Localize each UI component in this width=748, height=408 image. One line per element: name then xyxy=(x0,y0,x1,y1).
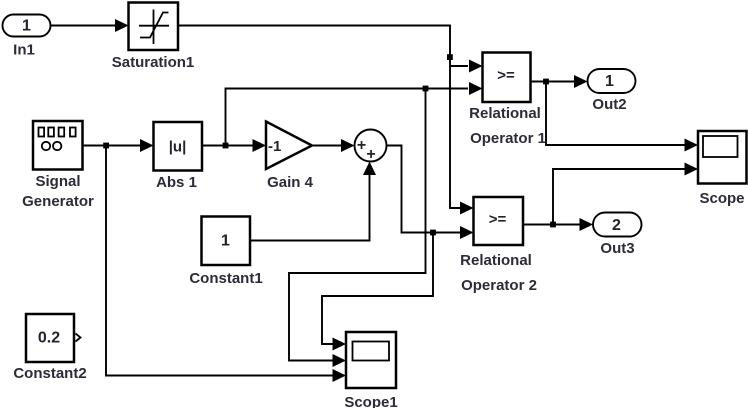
svg-text:Generator: Generator xyxy=(22,193,94,210)
wire branch RO1 output to Scope input 1 xyxy=(546,82,698,152)
wire branch RO2 output to Scope input 2 xyxy=(553,163,698,225)
wire Sum output to Relational Operator 2 input 2 xyxy=(387,146,474,240)
scope block Scope xyxy=(698,131,747,207)
junction dot Signal Generator branch xyxy=(103,143,109,149)
svg-text:Signal: Signal xyxy=(35,173,80,190)
junction dot Abs output branch xyxy=(223,143,229,149)
wire branch down to Scope1 input 2 xyxy=(289,89,426,368)
abs block Abs 1 xyxy=(154,122,203,191)
junction dot on RO2 output xyxy=(550,222,556,228)
wire Constant1 to Sum bottom input xyxy=(250,162,376,241)
wire Saturation1 to x450 corner, down xyxy=(178,26,474,215)
svg-text:2: 2 xyxy=(612,217,621,234)
wire Relational Operator 2 to Out3 xyxy=(523,218,593,231)
svg-text:>=: >= xyxy=(497,67,515,84)
svg-text:Abs 1: Abs 1 xyxy=(156,174,197,191)
svg-text:+: + xyxy=(366,146,375,163)
scope block Scope1 xyxy=(344,332,397,408)
svg-text:Constant2: Constant2 xyxy=(13,365,86,382)
svg-text:>=: >= xyxy=(489,211,507,228)
outport Out2 xyxy=(588,69,636,113)
wire Gain 4 to Sum xyxy=(312,139,355,152)
junction dot on RO1 output xyxy=(543,79,549,85)
svg-text:Scope: Scope xyxy=(699,190,744,207)
svg-text:Relational: Relational xyxy=(460,252,532,269)
svg-text:Constant1: Constant1 xyxy=(189,270,262,287)
svg-text:Scope1: Scope1 xyxy=(344,394,397,408)
svg-text:1: 1 xyxy=(221,233,230,250)
svg-text:Gain 4: Gain 4 xyxy=(267,174,314,191)
wire Abs 1 to Gain 4 xyxy=(202,139,266,152)
svg-text:|u|: |u| xyxy=(169,139,187,156)
svg-text:Operator 2: Operator 2 xyxy=(461,277,537,294)
junction dot on saturation branch xyxy=(447,54,453,60)
saturation block Saturation1 xyxy=(112,3,195,72)
inport In1 xyxy=(3,15,51,59)
wire branch to Relational Operator 1 input 1 xyxy=(450,60,483,73)
svg-text:1: 1 xyxy=(22,18,31,35)
sum block xyxy=(355,130,387,164)
outport Out3 xyxy=(593,213,642,258)
svg-text:1: 1 xyxy=(605,73,614,90)
relational operator block Relational Operator 2 xyxy=(460,197,537,294)
wire Relational Operator 1 to Out2 xyxy=(531,75,588,88)
svg-text:Relational: Relational xyxy=(469,105,541,122)
svg-text:-1: -1 xyxy=(268,138,281,155)
constant block Constant1 xyxy=(189,217,262,288)
wire In1 to Saturation1 xyxy=(51,19,129,32)
junction dot on y88 line xyxy=(423,86,429,92)
svg-text:Saturation1: Saturation1 xyxy=(112,54,195,71)
signal generator block xyxy=(22,121,94,210)
svg-text:+: + xyxy=(357,137,366,154)
wire branch sum output to Scope1 input 1 xyxy=(322,233,433,351)
wire branch Abs up and right to Relational Operator 1 input 2 xyxy=(226,82,483,146)
relational operator block Relational Operator 1 xyxy=(469,53,546,148)
wire Signal Generator to Abs 1 xyxy=(83,139,154,152)
svg-text:0.2: 0.2 xyxy=(38,330,60,347)
constant block Constant2 xyxy=(13,314,86,382)
svg-text:Out3: Out3 xyxy=(600,240,634,257)
junction dot on sum output line xyxy=(430,230,436,236)
svg-text:In1: In1 xyxy=(13,42,35,59)
wire branch Signal Generator down to Scope1 input 3 xyxy=(106,146,346,383)
svg-text:Operator 1: Operator 1 xyxy=(470,130,546,147)
gain block Gain 4 xyxy=(266,122,314,192)
svg-text:Out2: Out2 xyxy=(592,96,626,113)
